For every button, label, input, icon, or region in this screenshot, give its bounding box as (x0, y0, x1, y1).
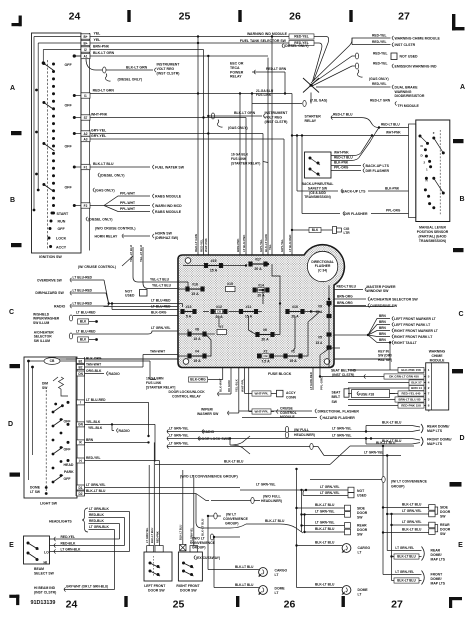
svg-text:POSITION SENSOR: POSITION SENSOR (417, 230, 449, 234)
svg-text:LT BLU-RED: LT BLU-RED (86, 398, 106, 402)
wire TAN-WHT from B2 (85, 366, 144, 368)
svg-text:RED-LT GRN: RED-LT GRN (93, 89, 115, 93)
svg-text:(GAS ONLY): (GAS ONLY) (228, 126, 248, 130)
wire RED-LT GRN from EEC relay (252, 71, 285, 73)
right front door switch (178, 470, 202, 581)
svg-text:A3: A3 (83, 137, 87, 141)
svg-text:BLK-ORG: BLK-ORG (190, 378, 206, 382)
svg-text:LIGHT SW: LIGHT SW (40, 502, 58, 506)
svg-text:YEL: YEL (94, 38, 102, 42)
svg-text:BRN: BRN (86, 438, 94, 442)
svg-text:VOLT REG: VOLT REG (157, 67, 175, 71)
svg-text:DUAL BRAKE: DUAL BRAKE (395, 85, 419, 89)
wire door lock relay (230, 368, 232, 395)
ignition switch (32, 33, 90, 259)
svg-text:RED-LT BLU: RED-LT BLU (334, 156, 353, 160)
fuse 6 (256, 333, 274, 337)
svg-text:LT BLU-RED: LT BLU-RED (151, 299, 171, 303)
svg-text:DOME: DOME (30, 485, 41, 489)
svg-text:BLK: BLK (80, 320, 87, 324)
wire GRY-YEL from A3 (90, 138, 284, 140)
svg-text:I1: I1 (84, 94, 87, 98)
fuse 16 (186, 287, 204, 291)
svg-text:SIDE: SIDE (357, 506, 366, 510)
light switch terminal I (77, 400, 85, 405)
svg-text:USED: USED (125, 293, 135, 297)
svg-text:DOME/: DOME/ (431, 577, 442, 581)
svg-text:RABS MODULE: RABS MODULE (155, 194, 182, 198)
rear door switch connector (345, 523, 351, 529)
svg-text:BLK-LT BLU: BLK-LT BLU (235, 583, 254, 587)
svg-text:CONTROL RELAY: CONTROL RELAY (172, 395, 202, 399)
svg-text:SW: SW (42, 386, 48, 390)
svg-text:SELECT SW: SELECT SW (34, 572, 55, 576)
cargo lamp left (259, 568, 268, 577)
svg-text:LT GRN-YEL: LT GRN-YEL (315, 510, 335, 514)
light switch (24, 357, 85, 498)
wire LT GRN-YEL radio row (167, 429, 169, 433)
rear dome map lights (412, 426, 420, 432)
svg-text:HEADLINER): HEADLINER) (261, 499, 282, 503)
svg-text:WARNING IND MODULE: WARNING IND MODULE (247, 32, 288, 36)
svg-text:RED-LT BLU: RED-LT BLU (381, 123, 400, 127)
wire door lock sws row (167, 436, 169, 440)
wire RED-LT BLU master power window (334, 289, 363, 291)
svg-text:BLK 57: BLK 57 (411, 381, 422, 385)
fuse 2 CB (258, 354, 274, 358)
svg-text:(INST CLSTR): (INST CLSTR) (34, 591, 56, 595)
svg-text:(GAS ONLY): (GAS ONLY) (95, 188, 115, 192)
wire BLK-ORG to fuse block (208, 379, 223, 381)
svg-text:BRN-PNK: BRN-PNK (236, 238, 240, 252)
svg-text:F: F (433, 131, 435, 135)
wire bends into junction (314, 37, 329, 82)
svg-text:SAFETY SW: SAFETY SW (308, 186, 328, 190)
svg-text:PPL-WHT: PPL-WHT (120, 201, 135, 205)
svg-text:(PARTIAL) (E4OD: (PARTIAL) (E4OD (418, 235, 447, 239)
svg-text:BLK: BLK (312, 228, 319, 232)
wire bus BLK-LT GRN down (267, 58, 269, 264)
svg-text:MAP LTS: MAP LTS (427, 429, 443, 433)
svg-text:HORN RELAY: HORN RELAY (95, 235, 118, 239)
svg-text:LT BLU-RED: LT BLU-RED (76, 329, 96, 333)
wire LT BLU-RED 2 to fuse block (111, 302, 113, 304)
svg-text:LEFT FRONT MARKER LT: LEFT FRONT MARKER LT (394, 317, 437, 321)
svg-text:SEAT: SEAT (332, 391, 342, 395)
svg-text:#2: #2 (264, 349, 268, 353)
svg-text:(INST CLSTR): (INST CLSTR) (157, 72, 180, 76)
svg-text:WARNING: WARNING (429, 350, 446, 354)
wire WHT-PNK to MLPS (292, 135, 409, 137)
svg-text:SEAT BELT IND: SEAT BELT IND (331, 368, 357, 372)
svg-text:LT BLU-RED: LT BLU-RED (76, 311, 96, 315)
front dome map lights (366, 443, 412, 445)
fuse 19 (204, 264, 222, 268)
svg-text:RADIO: RADIO (119, 429, 131, 433)
svg-text:LT GRN-YEL: LT GRN-YEL (402, 520, 422, 524)
back-up neutral safety switch box (305, 152, 332, 178)
svg-text:OFF: OFF (65, 186, 73, 190)
svg-text:15 A: 15 A (191, 292, 199, 296)
wires PPL-WHT to RABS module (90, 205, 104, 207)
svg-text:LT BLU-RED: LT BLU-RED (151, 305, 171, 309)
svg-text:RED-LT BLU: RED-LT BLU (333, 113, 353, 117)
wire RED-BLK beam select (50, 545, 125, 547)
wire bus LT GRN-RED below block (312, 368, 314, 391)
svg-text:MODULE: MODULE (430, 358, 445, 362)
svg-text:CONVENIENCE: CONVENIENCE (190, 541, 216, 545)
svg-text:LT GRN-YEL: LT GRN-YEL (402, 509, 422, 513)
wire GRY-YEL from A2 (90, 133, 263, 135)
svg-text:BRN: BRN (379, 338, 387, 342)
svg-text:RED-YEL: RED-YEL (86, 456, 100, 460)
svg-text:F1: F1 (84, 165, 88, 169)
wire BLK-LT BLU rear dome row (366, 425, 412, 427)
wire front dome map lts right (383, 574, 422, 576)
svg-text:WHT-PNK: WHT-PNK (204, 237, 208, 252)
svg-text:RED-YEL: RED-YEL (294, 35, 308, 39)
svg-text:[STARTER RELAY]: [STARTER RELAY] (146, 385, 175, 389)
svg-text:FUEL WATER SW: FUEL WATER SW (155, 165, 185, 169)
wire bus GRY-YEL down (262, 134, 264, 291)
light switch terminal D2 (77, 491, 85, 496)
ignition switch terminal F2 (81, 203, 90, 208)
wire BLK-LT BLU side door (296, 469, 298, 588)
svg-text:RED-BLK: RED-BLK (89, 513, 104, 517)
wire YEL-LT BLU hook 1 (133, 247, 178, 282)
svg-text:26: 26 (289, 11, 301, 23)
wire BLK-LT GRN from ignition A1 (90, 55, 269, 57)
svg-text:USED: USED (357, 493, 367, 497)
svg-text:20 A: 20 A (257, 293, 265, 297)
svg-text:RED-BLK: RED-BLK (61, 541, 76, 545)
svg-text:BLK-LT GRN: BLK-LT GRN (93, 51, 115, 55)
svg-text:LT GRN-RED: LT GRN-RED (309, 372, 313, 390)
wire bus RED-LT GRN down (197, 37, 199, 266)
wire DIR FLASHER to MLPS (301, 136, 303, 214)
svg-text:PARK: PARK (64, 470, 74, 474)
svg-text:WHT-PPL: WHT-PPL (240, 379, 244, 392)
svg-text:25: 25 (179, 11, 191, 23)
svg-text:(DIESEL ONLY): (DIESEL ONLY) (100, 173, 125, 177)
svg-text:BLK-LT BLU: BLK-LT BLU (235, 565, 254, 569)
svg-text:A1: A1 (83, 54, 87, 58)
wire RED-YEL from H (85, 460, 160, 462)
svg-text:(W/O LT CONVENIENCE GROUP): (W/O LT CONVENIENCE GROUP) (180, 474, 238, 478)
svg-text:BEAM: BEAM (34, 567, 44, 571)
svg-text:#6: #6 (263, 328, 267, 332)
fuse 8 (188, 332, 206, 336)
boxed label RED-YEL 2 (289, 40, 314, 45)
svg-text:YEL-BLK: YEL-BLK (235, 378, 239, 392)
svg-text:DOME: DOME (275, 586, 286, 590)
svg-text:GROUP): GROUP) (391, 485, 405, 489)
svg-text:BRN: BRN (379, 332, 387, 336)
svg-text:PPL-WHT: PPL-WHT (120, 207, 135, 211)
ignition switch terminal I2 (81, 47, 90, 52)
wire LT BLU-RED to fuse block (109, 303, 178, 305)
svg-text:RED-YEL: RED-YEL (373, 52, 387, 56)
svg-text:BLK-ORG: BLK-ORG (151, 311, 167, 315)
wire key-in to chime (319, 355, 321, 377)
svg-text:#10: #10 (292, 305, 298, 309)
svg-text:(DIESEL ONLY): (DIESEL ONLY) (118, 78, 143, 82)
svg-text:BLK-LT BLU: BLK-LT BLU (93, 162, 114, 166)
svg-text:GROUP): GROUP) (225, 521, 239, 525)
border corner mark top-right (452, 14, 465, 30)
svg-text:RED-LT BLU: RED-LT BLU (337, 285, 357, 289)
wire directional flasher arrow (239, 410, 312, 412)
svg-text:RED-YEL: RED-YEL (373, 62, 387, 66)
wire BLK-LT BLU dome lamp left (213, 537, 215, 588)
svg-text:LT GRN-YEL: LT GRN-YEL (169, 442, 189, 446)
svg-text:LEFT FRONT: LEFT FRONT (144, 584, 166, 588)
svg-text:(DIESEL ONLY): (DIESEL ONLY) (284, 44, 309, 48)
svg-text:DOOR LOCK SWS: DOOR LOCK SWS (199, 437, 230, 441)
svg-text:DK GRN: DK GRN (227, 380, 231, 392)
ignition switch terminal A1 (81, 53, 90, 58)
svg-text:BLK-LT BLU: BLK-LT BLU (86, 489, 106, 493)
pigtail gas only (357, 70, 362, 78)
boxed label BLK-ORG (189, 377, 208, 382)
svg-text:OFF: OFF (58, 227, 66, 231)
svg-text:YEL-BLK: YEL-BLK (86, 420, 101, 424)
svg-text:BLK-ORG: BLK-ORG (86, 356, 102, 360)
svg-text:DOOR SW: DOOR SW (180, 589, 197, 593)
wire hazard flasher arrow (242, 417, 317, 419)
fuse 10 (286, 310, 304, 314)
svg-text:OFF: OFF (64, 420, 72, 424)
svg-text:MODULE: MODULE (280, 415, 295, 419)
wire LT GRN-BLK beam select (50, 551, 130, 553)
svg-text:FUSE BLOCK: FUSE BLOCK (268, 372, 292, 376)
svg-text:YEL-BLK: YEL-BLK (88, 426, 103, 430)
svg-text:D: D (459, 435, 464, 442)
svg-text:15 A: 15 A (193, 359, 201, 363)
light switch terminal ON (77, 371, 85, 376)
svg-text:20 A: 20 A (261, 338, 269, 342)
wire bus LT BLU-RED down (291, 94, 293, 352)
svg-text:WARNING: WARNING (395, 90, 412, 94)
fuse block (178, 245, 344, 368)
svg-text:#7: #7 (220, 325, 224, 329)
svg-text:A: A (460, 84, 465, 91)
svg-text:WHT-PNK: WHT-PNK (91, 113, 108, 117)
svg-text:I: I (80, 401, 81, 405)
svg-text:BLK-LT BLU: BLK-LT BLU (224, 459, 244, 463)
fuse 11 (239, 310, 257, 314)
svg-text:YEL: YEL (94, 32, 102, 36)
svg-text:BLK-LT BLU: BLK-LT BLU (397, 579, 416, 583)
border corner mark bottom-left (9, 595, 19, 605)
svg-text:#5: #5 (318, 335, 322, 339)
connector to instrument voltage regulator (86, 59, 102, 70)
svg-text:15 A: 15 A (210, 269, 218, 273)
wire BRN from R (85, 441, 149, 443)
wire BLK-LT BLU cargo lamp (297, 545, 343, 547)
svg-text:BRN 14: BRN 14 (411, 386, 422, 390)
svg-text:RADIO: RADIO (203, 430, 215, 434)
wire cruise control module (248, 368, 250, 412)
svg-text:LT GRN-BLK: LT GRN-BLK (61, 547, 82, 551)
wire LT GRN-YEL rear door (302, 525, 345, 527)
wire LT GRN-YEL side door (301, 490, 303, 532)
svg-text:F2: F2 (84, 204, 88, 208)
svg-text:BLK-LT BLU: BLK-LT BLU (402, 503, 422, 507)
fuse 12 CB (211, 310, 227, 314)
svg-text:DOOR: DOOR (440, 528, 451, 532)
svg-text:(STARTER RELAY): (STARTER RELAY) (231, 161, 260, 165)
svg-text:POWER: POWER (230, 70, 244, 74)
svg-text:REAR: REAR (440, 523, 450, 527)
wire bus BRN-PNK down (203, 50, 205, 312)
wire LT GRN-YEL mid (167, 444, 169, 448)
wire feed vertical right doors 3 (391, 514, 393, 581)
svg-text:BLK-LT BLU: BLK-LT BLU (382, 421, 402, 425)
svg-text:27: 27 (398, 11, 410, 23)
svg-text:LT SW: LT SW (30, 490, 41, 494)
svg-text:(W/O LT: (W/O LT (192, 536, 206, 540)
light switch terminal B1 (77, 359, 85, 364)
svg-text:LT GRN-YEL: LT GRN-YEL (364, 451, 384, 455)
svg-text:LT GRN-YEL: LT GRN-YEL (151, 326, 171, 330)
left edge tick marks (10, 131, 22, 477)
wire BLK-PNK stub to back-up lts (331, 165, 361, 167)
fuse 17 (249, 262, 267, 266)
svg-text:LT GRN-BLK: LT GRN-BLK (89, 507, 110, 511)
svg-text:5 A: 5 A (186, 315, 192, 319)
svg-text:GRY-WHT (OR LT GRN-BLU): GRY-WHT (OR LT GRN-BLU) (66, 585, 108, 589)
svg-text:LT GRN-YEL: LT GRN-YEL (256, 482, 276, 486)
svg-text:#19: #19 (211, 259, 217, 263)
wire bus LT BLU-PNK down (245, 118, 247, 266)
wire YEL from ignition B+ (90, 36, 290, 38)
svg-text:HEAD: HEAD (64, 463, 74, 467)
wire RED-LT BLU from starter relay (331, 115, 333, 119)
svg-text:GROUP): GROUP) (192, 545, 206, 549)
left front door switch (144, 442, 172, 581)
fuse 1 (284, 354, 302, 358)
svg-text:MAP LTS: MAP LTS (431, 558, 446, 562)
svg-text:SW: SW (357, 515, 363, 519)
svg-text:LEFT FRONT PARK LT: LEFT FRONT PARK LT (394, 323, 431, 327)
svg-text:DIM: DIM (42, 381, 48, 385)
svg-text:BLK-LT BLU: BLK-LT BLU (402, 528, 422, 532)
svg-text:#8: #8 (195, 327, 199, 331)
svg-text:LT GRN-YEL: LT GRN-YEL (332, 434, 352, 438)
wire BRN-PNK from ignition I2 (90, 49, 204, 51)
wire LT GRN-YEL to not used (240, 489, 348, 491)
svg-text:#15: #15 (227, 282, 233, 286)
svg-text:BRN-PNK: BRN-PNK (93, 45, 110, 49)
svg-text:YEL-LT BLU: YEL-LT BLU (129, 245, 133, 262)
ignition switch terminal B+ pin 1 (81, 34, 90, 39)
svg-text:#1: #1 (291, 349, 295, 353)
svg-text:LT GRN-YEL: LT GRN-YEL (395, 570, 414, 574)
wire LT GRN-YEL right rear door (392, 524, 429, 526)
ignition switch terminal A2 (81, 131, 90, 136)
svg-text:FUS LINK: FUS LINK (231, 157, 247, 161)
svg-text:DIR FLASHER: DIR FLASHER (366, 169, 390, 173)
not used box (391, 53, 397, 60)
svg-text:BRN: BRN (379, 326, 387, 330)
svg-text:(DIESEL ONLY): (DIESEL ONLY) (88, 218, 113, 222)
svg-text:TAN-WHT: TAN-WHT (86, 362, 101, 366)
svg-text:LT BLU-RED: LT BLU-RED (73, 288, 93, 292)
svg-text:RIGHT FRONT: RIGHT FRONT (176, 584, 200, 588)
fuse 14 CB (253, 288, 269, 292)
svg-text:DOME/: DOME/ (431, 553, 442, 557)
svg-text:BLK-LT BLU: BLK-LT BLU (397, 555, 416, 559)
svg-text:(W/O CRUISE CONTROL): (W/O CRUISE CONTROL) (95, 226, 136, 230)
svg-text:TRANSMISSION): TRANSMISSION) (304, 195, 330, 199)
cigar lighter connector (333, 227, 337, 234)
wire BRN-ORG a/c heater (334, 298, 366, 300)
svg-text:WARN IND MCD: WARN IND MCD (155, 204, 182, 208)
svg-text:BRN-ORG: BRN-ORG (337, 301, 353, 305)
svg-text:SW ILLUM: SW ILLUM (34, 339, 51, 343)
svg-text:HEADLINER): HEADLINER) (294, 433, 315, 437)
svg-text:WHT-PNK: WHT-PNK (386, 131, 401, 135)
svg-text:(C6 & AOD: (C6 & AOD (309, 191, 326, 195)
wire BLK-LT BLU mid (155, 464, 330, 466)
border corner mark bottom-right (449, 597, 462, 608)
svg-text:FRONT: FRONT (431, 573, 444, 577)
svg-text:SW: SW (440, 514, 446, 518)
svg-text:BLK-LT BLU: BLK-LT BLU (315, 503, 335, 507)
svg-text:WASHER SW: WASHER SW (197, 412, 219, 416)
wire BLK to cigar lighter (292, 229, 332, 231)
svg-text:WIPER/: WIPER/ (201, 407, 213, 411)
svg-text:GRY-YEL: GRY-YEL (91, 134, 107, 138)
label W LT CONVENIENCE GROUP right (310, 479, 382, 481)
svg-text:EMISSION WARNING IND: EMISSION WARNING IND (395, 65, 437, 69)
svg-text:SW: SW (440, 532, 446, 536)
fuse block interior wires (178, 263, 330, 368)
svg-text:BRN-LT BLU 85: BRN-LT BLU 85 (398, 398, 420, 402)
svg-text:NOT USED: NOT USED (400, 55, 419, 59)
svg-text:MAP LTS: MAP LTS (431, 582, 446, 586)
svg-text:E: E (458, 542, 463, 549)
svg-text:REAR: REAR (431, 549, 441, 553)
wire BLK-LT BLU from D2 (85, 493, 197, 495)
svg-text:B: B (459, 196, 464, 203)
svg-text:DOOR: DOOR (357, 511, 368, 515)
wire LT BLU-RED from I (85, 401, 149, 403)
svg-text:N: N (421, 144, 423, 148)
boxed label RED-YEL (289, 34, 314, 39)
wire feed vertical right doors (382, 446, 384, 575)
svg-text:#4: #4 (195, 349, 199, 353)
svg-text:LT BLU-PNK: LT BLU-PNK (242, 234, 246, 252)
svg-text:15 A: 15 A (289, 359, 297, 363)
svg-text:VOLT REG: VOLT REG (265, 116, 283, 120)
svg-text:BLK: BLK (80, 338, 87, 342)
svg-text:BLK-PNK: BLK-PNK (385, 187, 400, 191)
svg-text:#9: #9 (318, 304, 322, 308)
wire accy conn (244, 368, 246, 394)
svg-text:GRY-YEL: GRY-YEL (280, 239, 284, 252)
svg-text:B+: B+ (83, 35, 87, 39)
svg-text:E: E (9, 542, 14, 549)
svg-text:IGNITION SW: IGNITION SW (39, 255, 62, 259)
wire BLK-ORG from B1 (85, 360, 151, 362)
fuse 13 (181, 310, 196, 314)
svg-text:RED-YEL: RED-YEL (372, 82, 386, 86)
svg-text:INST CLSTR: INST CLSTR (395, 43, 416, 47)
svg-text:(C 34): (C 34) (318, 268, 327, 272)
wire BLK-LT BLU rear door (304, 515, 306, 533)
